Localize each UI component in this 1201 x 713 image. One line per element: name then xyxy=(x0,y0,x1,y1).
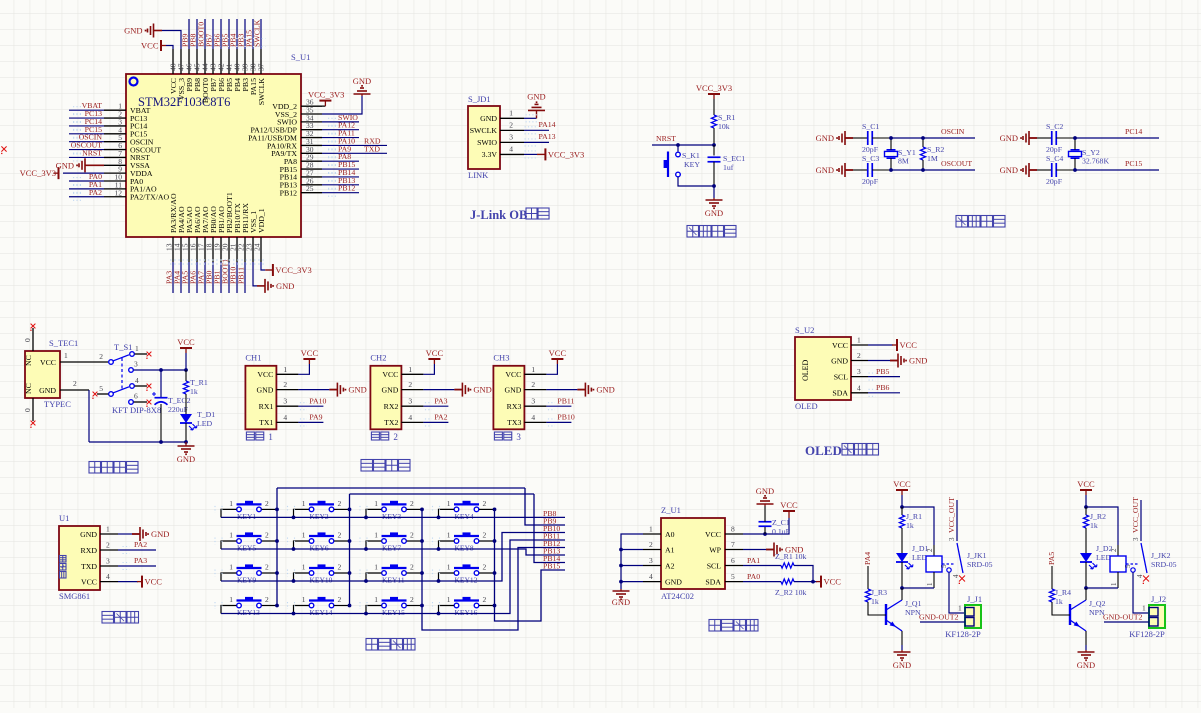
pin 3 PC14 xyxy=(104,125,126,127)
svg-text:S_C1: S_C1 xyxy=(862,122,879,131)
ground WP pin7 xyxy=(743,549,766,551)
net label PA9 xyxy=(298,421,323,423)
ground scanner xyxy=(118,533,132,535)
svg-text:SWCLK: SWCLK xyxy=(257,78,266,106)
net label PA11 xyxy=(322,137,359,139)
pin 3 RX2 xyxy=(401,405,423,407)
net label PA8 xyxy=(322,160,359,162)
svg-text:PA1: PA1 xyxy=(747,556,760,565)
wire KEY1 pin2 to column xyxy=(262,508,277,510)
net label VBAT xyxy=(69,109,104,111)
pin 4 TX2 xyxy=(401,421,423,423)
svg-text:VCC: VCC xyxy=(832,341,848,350)
svg-text:1: 1 xyxy=(229,563,233,572)
net label PB1 xyxy=(220,262,222,293)
wire KEY14 pin2 to column xyxy=(334,605,349,607)
svg-text:SCL: SCL xyxy=(834,372,849,381)
svg-text:1uf: 1uf xyxy=(723,163,734,172)
caption cun-chu-mo-kuai xyxy=(709,620,721,632)
svg-text:KEY8: KEY8 xyxy=(455,544,474,553)
pin 1 VCC xyxy=(276,373,298,375)
svg-text:PA10: PA10 xyxy=(309,397,326,406)
svg-text:PA2: PA2 xyxy=(134,540,147,549)
crystal S_Y2 32.768K xyxy=(1071,149,1080,151)
svg-text:KEY10: KEY10 xyxy=(310,576,333,585)
svg-text:1: 1 xyxy=(302,499,306,508)
svg-text:6: 6 xyxy=(731,556,735,565)
wire PB9 from column 1 xyxy=(525,488,565,525)
svg-text:VCC: VCC xyxy=(505,370,521,379)
svg-text:T_EC2: T_EC2 xyxy=(168,396,191,405)
svg-text:5: 5 xyxy=(940,564,948,568)
net label PA10 xyxy=(298,405,323,407)
svg-text:KF128-2P: KF128-2P xyxy=(1129,629,1165,639)
svg-text:PB6: PB6 xyxy=(876,383,890,392)
pin 10 PA0 xyxy=(104,180,126,182)
net label PA13 xyxy=(524,141,549,143)
svg-text:J_JK1: J_JK1 xyxy=(967,551,987,560)
svg-text:2: 2 xyxy=(99,352,103,361)
svg-text:PA3: PA3 xyxy=(134,556,147,565)
resistor S_R2 1M xyxy=(891,137,923,139)
svg-text:3: 3 xyxy=(516,432,521,442)
svg-text:2: 2 xyxy=(410,563,414,572)
pin 6 stub xyxy=(129,400,134,405)
svg-text:GND: GND xyxy=(276,281,294,291)
svg-text:GND: GND xyxy=(756,486,774,496)
svg-text:PB11: PB11 xyxy=(237,267,246,284)
pin 1 GND xyxy=(100,533,118,535)
capacitor Z_C1 0.1uF xyxy=(764,526,766,534)
wire KEY12 pin1 bracket xyxy=(439,573,454,581)
net label BOOT0 xyxy=(204,19,206,49)
key KEY3 xyxy=(382,503,407,505)
connector U1 SMG861 body xyxy=(59,526,100,590)
pin 37 SWCLK xyxy=(260,49,262,74)
pin 38 PA15 xyxy=(252,49,254,74)
svg-text:PB10: PB10 xyxy=(557,413,574,422)
pin 0 top xyxy=(32,328,34,351)
svg-text:SMG861: SMG861 xyxy=(59,591,90,601)
svg-text:PC14: PC14 xyxy=(1125,127,1142,136)
net label PA10 xyxy=(322,144,387,146)
svg-text:20pF: 20pF xyxy=(1046,145,1063,154)
svg-text:PA2/TX/AO: PA2/TX/AO xyxy=(130,193,170,202)
wire KEY10 pin1 bracket xyxy=(294,573,309,581)
wire VCC pin8 xyxy=(743,518,789,534)
svg-text:2: 2 xyxy=(283,380,287,389)
net label PB14 xyxy=(322,176,359,178)
pin 20 PB2/BOOT1 xyxy=(228,237,230,262)
svg-text:2: 2 xyxy=(410,531,414,540)
svg-text:2: 2 xyxy=(410,499,414,508)
pin 4 TX3 xyxy=(524,421,546,423)
svg-text:7: 7 xyxy=(731,540,735,549)
svg-text:24: 24 xyxy=(253,243,262,251)
svg-text:CH2: CH2 xyxy=(370,353,386,363)
svg-text:1k: 1k xyxy=(906,521,914,530)
ground above Z_C1 xyxy=(764,504,766,506)
svg-text:S_JD1: S_JD1 xyxy=(468,94,491,104)
net label PA4 xyxy=(180,262,182,293)
caption jing-zhen-dian-lu xyxy=(956,216,968,228)
svg-text:Z_R2 10k: Z_R2 10k xyxy=(775,588,807,597)
connector CH2 body xyxy=(370,366,401,430)
capacitor S_C3 20pF xyxy=(853,169,868,171)
net label PC14 xyxy=(69,125,104,127)
key KEY14 xyxy=(309,599,334,601)
svg-text:20pF: 20pF xyxy=(862,177,879,186)
svg-text:1: 1 xyxy=(531,365,535,374)
svg-text:5: 5 xyxy=(1124,564,1132,568)
key KEY11 xyxy=(382,567,407,569)
svg-text:S_C3: S_C3 xyxy=(862,154,879,163)
net label OSCOUT xyxy=(923,169,975,171)
svg-text:1: 1 xyxy=(374,499,378,508)
junction rail xyxy=(437,516,441,520)
svg-text:S_U2: S_U2 xyxy=(795,325,814,335)
net label PC15 xyxy=(1075,169,1159,171)
svg-text:SDA: SDA xyxy=(832,389,848,398)
pin 3 A2 xyxy=(643,565,661,567)
svg-text:VCC_OUT: VCC_OUT xyxy=(1131,497,1140,533)
wire KEY4 pin2 to column xyxy=(479,508,494,510)
resistor J_R1 1k xyxy=(901,507,903,515)
label chuan-kou 1 xyxy=(246,432,254,440)
svg-text:GND: GND xyxy=(124,26,142,36)
key KEY16 xyxy=(454,599,479,601)
pin 6 OSCOUT xyxy=(104,149,126,151)
svg-text:GND: GND xyxy=(504,385,521,394)
connector S_U2 OLED body xyxy=(795,337,851,400)
svg-text:PA5: PA5 xyxy=(1047,552,1056,565)
wire to relay coil xyxy=(1086,507,1118,545)
svg-text:GND: GND xyxy=(256,385,273,394)
svg-text:KEY2: KEY2 xyxy=(310,512,329,521)
svg-text:GND: GND xyxy=(1000,165,1018,175)
wire cap to node xyxy=(1056,137,1075,139)
svg-text:2: 2 xyxy=(338,499,342,508)
svg-text:GND: GND xyxy=(893,660,911,670)
wire vcc to resistor xyxy=(713,99,715,115)
svg-text:OLED: OLED xyxy=(801,359,810,381)
wire KEY3 pin2 to column xyxy=(407,508,422,510)
svg-text:1: 1 xyxy=(229,595,233,604)
svg-text:A2: A2 xyxy=(665,561,675,570)
svg-text:20pF: 20pF xyxy=(1046,177,1063,186)
wire KEY16 pin1 bracket xyxy=(439,606,454,614)
net label PB11 xyxy=(244,262,246,293)
capacitor S_C2 20pF xyxy=(1037,137,1052,139)
led T_D1 LED xyxy=(180,414,192,423)
svg-text:VCC: VCC xyxy=(382,370,398,379)
net label GND-OUT2 wire xyxy=(920,621,965,623)
net label PB4 xyxy=(236,19,238,49)
ground at pin 47 VSS_3 xyxy=(162,31,181,50)
svg-text:GND: GND xyxy=(80,530,97,539)
svg-text:10k: 10k xyxy=(718,122,730,131)
pin 48 VCC xyxy=(172,49,174,74)
svg-text:2: 2 xyxy=(338,563,342,572)
svg-text:3: 3 xyxy=(106,557,110,566)
wire KEY11 pin2 to column xyxy=(407,572,422,574)
power VCC CH3 xyxy=(546,364,557,374)
svg-text:25: 25 xyxy=(306,184,314,193)
caption chuan-kou-dian-lu xyxy=(361,460,373,472)
key KEY13 xyxy=(237,599,262,601)
svg-text:RX2: RX2 xyxy=(384,402,399,411)
wire cap to node xyxy=(872,137,891,139)
net label OSCIN xyxy=(69,141,104,143)
svg-text:J_J1: J_J1 xyxy=(967,594,982,604)
pin 4 stub xyxy=(130,384,135,389)
svg-text:KEY11: KEY11 xyxy=(382,576,405,585)
svg-text:RXD: RXD xyxy=(81,546,98,555)
svg-text:VCC_3V3: VCC_3V3 xyxy=(308,90,344,100)
pin 2 GND xyxy=(401,389,423,391)
pin 4 SDA xyxy=(851,392,868,394)
svg-text:J_JK2: J_JK2 xyxy=(1151,551,1171,560)
pin 34 SWIO xyxy=(301,121,322,123)
wire KEY2 pin1 bracket xyxy=(294,509,309,517)
svg-text:PC15: PC15 xyxy=(1125,159,1142,168)
junction rail xyxy=(364,612,368,616)
net label PB12 xyxy=(322,192,359,194)
svg-text:LED: LED xyxy=(1096,553,1112,562)
pin 13 PA3/RX/AO xyxy=(172,237,174,262)
pin 1 stub with cross xyxy=(135,353,147,355)
wire KEY8 pin2 to column xyxy=(479,540,494,542)
svg-text:S_R2: S_R2 xyxy=(927,145,944,154)
svg-text:3: 3 xyxy=(857,367,861,376)
junction rail xyxy=(292,547,296,551)
pin 8 VSSA xyxy=(104,164,126,166)
svg-text:2: 2 xyxy=(410,595,414,604)
net label PA0 / resistor Z_R2 10k xyxy=(743,581,781,583)
svg-text:1: 1 xyxy=(447,595,451,604)
svg-text:GND: GND xyxy=(348,385,366,395)
svg-text:KEY12: KEY12 xyxy=(455,576,478,585)
ground transistor xyxy=(901,645,903,650)
ground CH2 xyxy=(423,389,454,391)
transistor J_Q1 NPN xyxy=(885,604,887,625)
svg-text:2: 2 xyxy=(106,541,110,550)
svg-text:1: 1 xyxy=(509,108,513,117)
svg-text:1: 1 xyxy=(408,365,412,374)
svg-text:1: 1 xyxy=(374,563,378,572)
svg-text:PA0: PA0 xyxy=(747,572,760,581)
wire KEY12 pin2 to column xyxy=(479,572,494,574)
pin 17 PA7/AO xyxy=(204,237,206,262)
key KEY8 xyxy=(454,535,479,537)
svg-text:OLED: OLED xyxy=(805,443,842,458)
net label PB3 xyxy=(244,19,246,49)
column wire 1 xyxy=(276,488,278,606)
wire to relay coil xyxy=(902,507,934,545)
pin 22 PB11/RX xyxy=(244,237,246,262)
svg-text:4: 4 xyxy=(531,413,535,422)
net label PB15 xyxy=(322,168,359,170)
crystal S_Y1 8M xyxy=(887,149,896,151)
svg-text:VCC: VCC xyxy=(893,479,911,489)
net label PA15 xyxy=(252,19,254,49)
caption fu-wei-dian-lu xyxy=(687,226,699,238)
svg-text:GND: GND xyxy=(816,165,834,175)
net label BOOT1 xyxy=(228,262,230,293)
pin 39 PB3 xyxy=(244,49,246,74)
net label PA12 xyxy=(322,129,359,131)
key KEY2 xyxy=(309,503,334,505)
pin 24 VDD_1 xyxy=(260,237,262,262)
svg-text:2: 2 xyxy=(73,379,77,388)
ground crystal top S_C2 xyxy=(1023,131,1037,145)
pin 16 PA6/AO xyxy=(196,237,198,262)
svg-text:S_TEC1: S_TEC1 xyxy=(49,338,78,348)
svg-text:VCC: VCC xyxy=(1077,479,1095,489)
svg-text:1k: 1k xyxy=(190,387,198,396)
svg-text:2: 2 xyxy=(926,548,934,552)
pin 14 PA4/AO xyxy=(180,237,182,262)
svg-text:5: 5 xyxy=(99,384,103,393)
svg-text:2: 2 xyxy=(265,563,269,572)
ground storage left xyxy=(620,589,622,591)
svg-text:PA9: PA9 xyxy=(309,413,322,422)
compile marks bottom pins xyxy=(170,260,266,264)
svg-text:J_R2: J_R2 xyxy=(1090,512,1106,521)
pin 2 GND xyxy=(276,389,298,391)
svg-text:VCC: VCC xyxy=(705,530,721,539)
relay switch contact xyxy=(1140,500,1142,541)
svg-text:1: 1 xyxy=(649,525,653,534)
pin 44 BOOT0 xyxy=(204,49,206,74)
net label PB0 xyxy=(212,262,214,293)
svg-text:1: 1 xyxy=(857,336,861,345)
svg-text:3: 3 xyxy=(134,360,138,369)
svg-text:A1: A1 xyxy=(665,545,675,554)
pin 3 RX3 xyxy=(524,405,546,407)
pin 1 VCC wire to switch xyxy=(60,361,108,363)
svg-text:2: 2 xyxy=(338,595,342,604)
svg-text:J_Q2: J_Q2 xyxy=(1089,599,1106,608)
svg-text:2: 2 xyxy=(265,499,269,508)
pin 3 SCL xyxy=(851,376,868,378)
wire KEY16 pin2 to column xyxy=(479,605,494,607)
label chuan-kou 2 xyxy=(371,432,379,440)
svg-text:1k: 1k xyxy=(871,597,879,606)
svg-text:GND: GND xyxy=(151,529,169,539)
matrix keyboard wires top xyxy=(277,487,525,489)
wire PB14 from column 2 xyxy=(534,494,565,563)
svg-text:LED: LED xyxy=(197,419,213,428)
net label PB6 xyxy=(220,19,222,49)
svg-text:1: 1 xyxy=(229,499,233,508)
ground OLED xyxy=(868,360,890,362)
pin 1 VCC xyxy=(851,344,868,346)
svg-text:VCC: VCC xyxy=(549,348,567,358)
svg-text:GND: GND xyxy=(831,356,848,365)
svg-text:SWIO: SWIO xyxy=(477,138,497,147)
net label PA2 xyxy=(423,421,448,423)
svg-text:J_R4: J_R4 xyxy=(1055,588,1071,597)
svg-text:Z_U1: Z_U1 xyxy=(661,505,681,515)
svg-text:VCC: VCC xyxy=(301,348,319,358)
relay switch contact xyxy=(956,500,958,541)
column wire 3 xyxy=(422,509,565,630)
pin 29 PA8 xyxy=(301,160,322,162)
ground transistor xyxy=(1085,645,1087,650)
svg-text:J_R3: J_R3 xyxy=(871,588,887,597)
net label PB11 xyxy=(546,405,571,407)
wire KEY7 pin1 bracket xyxy=(366,541,381,549)
power VCC_3V3 at pin 36 xyxy=(301,105,325,107)
svg-text:T_R1: T_R1 xyxy=(190,378,208,387)
svg-text:GND: GND xyxy=(909,356,927,366)
svg-text:2: 2 xyxy=(531,380,535,389)
transistor J_Q2 NPN xyxy=(1069,604,1071,625)
svg-text:2: 2 xyxy=(483,595,487,604)
net label PA9 xyxy=(322,152,387,154)
pin 35 VSS_2 xyxy=(301,113,322,115)
pin 3 RX1 xyxy=(276,405,298,407)
svg-text:1: 1 xyxy=(374,595,378,604)
key KEY6 xyxy=(309,535,334,537)
svg-text:KEY7: KEY7 xyxy=(382,544,401,553)
net label PA14 xyxy=(524,129,549,131)
svg-text:2: 2 xyxy=(483,531,487,540)
key KEY7 xyxy=(382,535,407,537)
wire KEY5 pin2 to column xyxy=(262,540,277,542)
caption dian-yuan-dian-lu xyxy=(89,462,101,474)
wire KEY11 pin1 bracket xyxy=(366,573,381,581)
svg-text:2: 2 xyxy=(338,531,342,540)
net label PA3 xyxy=(423,405,448,407)
svg-text:1: 1 xyxy=(135,344,139,353)
svg-text:SRD-05: SRD-05 xyxy=(967,560,993,569)
pin 6 SCL xyxy=(725,565,743,567)
svg-text:Z_R1 10k: Z_R1 10k xyxy=(775,552,807,561)
svg-text:TX3: TX3 xyxy=(507,418,521,427)
wire KEY6 pin2 to column xyxy=(334,540,349,542)
row rail 2 to PB13 xyxy=(221,549,565,555)
key KEY9 xyxy=(237,567,262,569)
pin 43 PB7 xyxy=(212,49,214,74)
svg-text:2: 2 xyxy=(857,351,861,360)
wire KEY8 pin1 bracket xyxy=(439,541,454,549)
row rail 3 to PB10 xyxy=(221,533,565,582)
net label PB9 xyxy=(188,19,190,49)
svg-text:2: 2 xyxy=(265,531,269,540)
pin 28 PB15 xyxy=(301,168,322,170)
svg-text:KEY9: KEY9 xyxy=(237,576,256,585)
capacitor T_EC2 220uF xyxy=(160,370,162,398)
svg-text:GND: GND xyxy=(353,76,371,86)
connector S_JD1 J-Link body xyxy=(468,106,500,169)
svg-text:3: 3 xyxy=(408,397,412,406)
wire KEY4 pin1 bracket xyxy=(439,509,454,517)
svg-text:PA13: PA13 xyxy=(539,132,556,141)
svg-text:KEY14: KEY14 xyxy=(310,608,333,617)
pin 5 stub xyxy=(109,392,114,397)
svg-text:1: 1 xyxy=(106,525,110,534)
svg-text:2: 2 xyxy=(408,380,412,389)
svg-text:VCC: VCC xyxy=(141,41,159,51)
switch dashed link xyxy=(121,358,123,390)
svg-text:TXD: TXD xyxy=(364,144,380,153)
svg-text:1: 1 xyxy=(1142,604,1146,613)
svg-text:5: 5 xyxy=(731,572,735,581)
column wire 2 xyxy=(349,494,351,606)
svg-text:VCC_3V3: VCC_3V3 xyxy=(20,168,56,178)
